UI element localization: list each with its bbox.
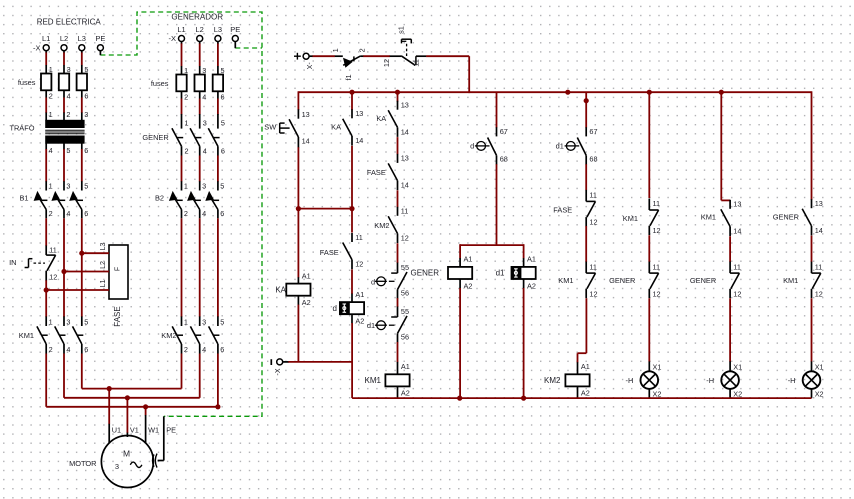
wire f1 to pushbutton s1 — [363, 55, 390, 57]
wire s1 to control bus — [426, 55, 469, 57]
svg-text:4: 4 — [202, 345, 206, 354]
node L3/FASE junction — [79, 251, 84, 256]
fuse F gen pins 3/4 — [195, 66, 207, 102]
svg-text:f1: f1 — [344, 74, 353, 80]
svg-text:3: 3 — [203, 119, 207, 128]
svg-text:U1: U1 — [112, 425, 121, 434]
breaker f1 pins 1/2 — [331, 48, 367, 80]
node bus / d1 67-68 branch — [565, 90, 570, 95]
wire KA coil to - rail — [297, 305, 299, 362]
wire U1 drop to motor — [108, 389, 110, 425]
wire W1 drop to motor — [145, 407, 147, 416]
svg-text:14: 14 — [815, 226, 823, 235]
node rung right — [349, 206, 354, 211]
svg-text:M: M — [123, 449, 130, 459]
wire L3 tap to FASE — [82, 252, 109, 254]
svg-text:3: 3 — [84, 110, 88, 119]
svg-text:GENER: GENER — [609, 276, 635, 285]
breaker B2 pole pins 1/2 — [169, 181, 188, 218]
svg-text:12: 12 — [355, 260, 363, 269]
svg-text:-H: -H — [625, 376, 633, 385]
node bus / lamp branch 1 — [647, 90, 652, 95]
contactor coil KM2 A1/A2 — [577, 362, 579, 374]
node d1 coil / bottom rail — [521, 396, 526, 401]
svg-text:3: 3 — [202, 181, 206, 190]
svg-text:-X: -X — [33, 43, 41, 52]
node SW/KA rung left — [296, 206, 301, 211]
node bus branch 3 — [395, 90, 400, 95]
contactor KM1 pole 5/6 — [73, 316, 89, 354]
svg-text:d1: d1 — [496, 269, 505, 278]
svg-text:fuses: fuses — [18, 78, 36, 87]
svg-text:KM1: KM1 — [701, 213, 716, 222]
svg-text:6: 6 — [221, 92, 225, 101]
svg-text:L3: L3 — [214, 25, 222, 34]
svg-text:L1: L1 — [177, 25, 185, 34]
svg-text:3: 3 — [66, 317, 70, 326]
svg-text:s1: s1 — [396, 26, 405, 34]
svg-text:2: 2 — [49, 345, 53, 354]
svg-text:1: 1 — [184, 181, 188, 190]
wire FASE to KM1 NC — [585, 226, 587, 262]
relay coil GENER A1/A2 — [411, 255, 473, 291]
PE stub wire (mains) — [99, 51, 101, 56]
wire bus to branch KA-FASE-KM2 — [397, 91, 399, 102]
motor M1 3-phase — [69, 436, 153, 488]
wire d to d1 timed contact — [397, 298, 399, 307]
svg-text:KM1: KM1 — [365, 376, 382, 385]
wire KM1 NC to KM2 coil jog — [585, 298, 587, 353]
wire rung to GENER coil — [459, 244, 461, 258]
node V1 bus junction — [125, 395, 130, 400]
svg-text:12: 12 — [589, 289, 597, 298]
svg-text:1: 1 — [49, 181, 53, 190]
svg-text:12: 12 — [382, 59, 391, 67]
contactor KM1 pole 1/2 — [37, 316, 53, 354]
wire motor bus V1 (KM1-4 / KM2-4) — [64, 397, 200, 399]
svg-text:11: 11 — [733, 262, 741, 271]
wire fuses to TRAFO — [45, 98, 47, 114]
svg-text:12: 12 — [653, 226, 661, 235]
svg-text:V1: V1 — [130, 425, 139, 434]
svg-text:14: 14 — [401, 181, 409, 190]
node GENER coil / bottom rail — [457, 396, 462, 401]
wire KM1 NC to lamp H3 — [811, 298, 813, 362]
svg-text:SW: SW — [264, 122, 276, 131]
svg-text:13: 13 — [302, 110, 310, 119]
svg-text:A1: A1 — [302, 271, 311, 280]
svg-text:KM2: KM2 — [374, 221, 389, 230]
terminals -X L1 L2 L3 PE (mains) — [43, 45, 49, 51]
wire bus right end down to GENER 13/14 — [811, 91, 813, 200]
svg-text:1: 1 — [184, 66, 188, 75]
breaker B2 pole pins 3/4 — [187, 181, 206, 218]
wire d 67/68 to coil pair split — [496, 164, 498, 245]
motor PE brush arcs — [153, 454, 158, 468]
generator enclosure PE stub — [235, 47, 262, 49]
svg-text:A1: A1 — [464, 255, 473, 264]
wire PE drop to motor — [163, 416, 165, 460]
svg-text:3: 3 — [115, 462, 119, 471]
svg-text:-X: -X — [169, 34, 177, 43]
svg-text:fuses: fuses — [151, 79, 169, 88]
svg-text:14: 14 — [302, 136, 310, 145]
wire bus to timed contact d 67/68 — [496, 92, 498, 127]
node bus branch 2 — [349, 90, 354, 95]
svg-text:13: 13 — [733, 200, 741, 209]
svg-text:L1: L1 — [42, 34, 50, 43]
svg-text:2: 2 — [66, 110, 70, 119]
svg-text:6: 6 — [220, 345, 224, 354]
wire GENER NC to lamp H2 — [729, 298, 731, 362]
node W1 bus junction — [143, 404, 148, 409]
svg-text:11: 11 — [355, 233, 363, 242]
svg-text:4: 4 — [203, 146, 207, 155]
wire d1 to KM1 coil — [397, 342, 399, 362]
svg-text:1: 1 — [185, 119, 189, 128]
wire KM1 13/14 to GENER NC — [729, 236, 731, 262]
svg-text:A2: A2 — [302, 298, 311, 307]
fuse F mains pins 3/4 — [59, 65, 71, 101]
timed contact d1 pins 67/68 — [556, 127, 598, 164]
svg-text:12: 12 — [815, 289, 823, 298]
svg-text:56: 56 — [401, 288, 409, 297]
svg-text:L2: L2 — [100, 261, 107, 269]
wire generator terminals to fuses — [181, 42, 183, 45]
IN actuator flag and dashed link — [29, 258, 33, 260]
node KM2-6 bus corner — [215, 404, 220, 409]
svg-text:3: 3 — [202, 66, 206, 75]
wire rung to d1 coil — [523, 244, 525, 258]
svg-text:A2: A2 — [355, 317, 364, 326]
svg-text:5: 5 — [221, 119, 225, 128]
svg-text:67: 67 — [589, 127, 597, 136]
svg-text:5: 5 — [84, 181, 88, 190]
svg-text:1: 1 — [49, 110, 53, 119]
svg-text:6: 6 — [84, 91, 88, 100]
svg-text:RED ELECTRICA: RED ELECTRICA — [37, 18, 102, 27]
svg-text:12: 12 — [401, 233, 409, 242]
wire generator fuses to GENER switch — [181, 99, 183, 115]
svg-text:5: 5 — [220, 181, 224, 190]
svg-text:A2: A2 — [464, 281, 473, 290]
node U1 bus junction — [107, 386, 112, 391]
svg-text:4: 4 — [66, 345, 70, 354]
svg-text:d: d — [333, 304, 337, 313]
svg-text:4: 4 — [202, 209, 206, 218]
wire d1 to FASE NC — [585, 164, 587, 190]
svg-text:A1: A1 — [355, 290, 364, 299]
breaker B1 pole pins 3/4 — [51, 181, 70, 218]
contactor KM2 pole 1/2 — [172, 316, 188, 354]
svg-text:6: 6 — [221, 146, 225, 155]
svg-text:12: 12 — [49, 272, 57, 281]
svg-text:13: 13 — [815, 199, 823, 208]
svg-text:d: d — [470, 142, 474, 151]
svg-text:KA: KA — [376, 114, 386, 123]
svg-text:11: 11 — [653, 262, 661, 271]
svg-text:5: 5 — [66, 146, 70, 155]
fuse F gen pins 5/6 — [213, 66, 225, 102]
control + supply terminal -X — [294, 53, 312, 70]
fuse F mains pins 5/6 — [77, 65, 89, 101]
svg-text:6: 6 — [84, 146, 88, 155]
svg-text:2: 2 — [185, 146, 189, 155]
svg-text:A2: A2 — [401, 389, 410, 398]
svg-text:IN: IN — [9, 258, 16, 267]
svg-text:d1: d1 — [556, 142, 564, 151]
svg-text:KM2: KM2 — [161, 331, 176, 340]
timed contact d pins 67/68 — [470, 127, 508, 164]
wire bus to KA contact — [351, 91, 353, 110]
svg-text:14: 14 — [733, 226, 741, 235]
node bus / lamp branch 2 — [719, 90, 724, 95]
auxiliary contact IN pins 11/12 — [9, 246, 57, 282]
svg-text:L2: L2 — [60, 34, 68, 43]
svg-text:A2: A2 — [527, 281, 536, 290]
transformer TRAFO — [9, 110, 88, 155]
svg-text:68: 68 — [589, 154, 597, 163]
wire control bottom rail — [352, 397, 811, 399]
svg-text:14: 14 — [401, 127, 409, 136]
wire KM1 outputs to motor buses — [45, 354, 47, 407]
svg-text:A1: A1 — [401, 362, 410, 371]
svg-text:GENERADOR: GENERADOR — [171, 13, 223, 22]
svg-text:5: 5 — [84, 317, 88, 326]
wire KM1 to GENER NC — [648, 235, 650, 262]
svg-text:-H: -H — [788, 376, 796, 385]
svg-text:-H: -H — [706, 376, 714, 385]
svg-text:3: 3 — [67, 65, 71, 74]
wire KA to FASE (branch 3) — [397, 137, 399, 154]
svg-text:2: 2 — [184, 345, 188, 354]
fuse F gen pins 1/2 — [176, 66, 188, 102]
svg-text:X1: X1 — [815, 362, 824, 371]
wire bus to KM1 13/14 — [720, 92, 722, 200]
control - supply terminal -X — [271, 359, 282, 376]
svg-text:55: 55 — [401, 307, 409, 316]
svg-text:KM2: KM2 — [544, 376, 561, 385]
wire IN to KM1 — [45, 280, 47, 317]
svg-text:1: 1 — [184, 317, 188, 326]
svg-text:11: 11 — [401, 207, 409, 216]
timed contact d pins 55/56 — [371, 263, 409, 299]
switch SW pins 13/14 — [264, 109, 309, 147]
node L2/FASE junction — [61, 269, 66, 274]
wire coil pair rung — [460, 244, 523, 246]
svg-text:X1: X1 — [653, 362, 662, 371]
wire TRAFO to B1 — [45, 143, 47, 149]
svg-text:F: F — [114, 267, 121, 271]
svg-text:KA: KA — [275, 285, 286, 294]
svg-text:13: 13 — [401, 101, 409, 110]
wire GENER NC to lamp H1 — [648, 298, 650, 362]
svg-text:L3: L3 — [78, 34, 86, 43]
svg-text:GENER: GENER — [411, 269, 440, 278]
svg-text:MOTOR: MOTOR — [69, 459, 96, 468]
svg-text:3: 3 — [66, 181, 70, 190]
timed contact d1 pins 55/56 — [367, 307, 409, 343]
svg-text:2: 2 — [184, 92, 188, 101]
svg-text:KM1: KM1 — [623, 214, 638, 223]
svg-text:6: 6 — [84, 345, 88, 354]
wire d1 coil to bottom rail — [523, 288, 525, 398]
contactor KM1 pole 3/4 — [55, 316, 71, 354]
svg-text:PE: PE — [230, 25, 240, 34]
svg-text:11: 11 — [589, 262, 597, 271]
svg-text:L1: L1 — [100, 280, 107, 288]
wire GENER coil to bottom rail — [459, 288, 461, 398]
terminals -X L1 L2 L3 PE (generator) — [179, 36, 185, 42]
wire KA to FASE contact — [351, 146, 353, 233]
timer coil d1 A1/A2 — [496, 255, 536, 291]
svg-text:4: 4 — [66, 209, 70, 218]
svg-text:FASE: FASE — [320, 248, 339, 257]
svg-text:1: 1 — [49, 317, 53, 326]
switch GENER pole 3/4 — [190, 114, 207, 156]
svg-text:5: 5 — [221, 66, 225, 75]
svg-text:W1: W1 — [148, 425, 159, 434]
phase monitor relay FASE box — [100, 243, 128, 327]
relay coil KA A1/A2 — [297, 277, 299, 283]
svg-text:KM1: KM1 — [19, 331, 34, 340]
PE stub wire (generator) — [234, 42, 236, 49]
svg-text:GENER: GENER — [773, 213, 799, 222]
svg-text:GENER: GENER — [142, 133, 168, 142]
svg-text:4: 4 — [49, 146, 53, 155]
svg-text:11: 11 — [815, 262, 823, 271]
breaker B1 pole pins 5/6 — [69, 181, 88, 218]
svg-text:d1: d1 — [367, 321, 375, 330]
breaker B1 pole pins 1/2 — [34, 181, 53, 218]
wire GENER 13/14 to KM1 NC — [811, 236, 813, 262]
SW actuator lever — [280, 122, 285, 124]
wire V1 drop to motor — [126, 398, 128, 433]
wire KM2 contact to timed contact d — [397, 243, 399, 263]
wire d coil to bottom rail — [351, 323, 353, 398]
pushbutton s1 NC pins 11/12 — [382, 26, 427, 67]
svg-text:1: 1 — [49, 65, 53, 74]
indicator lamp -H X1/X2 (running) — [706, 361, 742, 398]
wire motor bus U1 (KM1-6 / KM2-2) — [82, 388, 182, 390]
svg-text:11: 11 — [411, 59, 420, 67]
wire control bus L+ — [298, 91, 811, 93]
fuse F mains pins 1/2 — [41, 65, 53, 101]
wire bus to KM1 NC (lamp branch 1) — [648, 92, 650, 198]
svg-text:5: 5 — [84, 65, 88, 74]
wire + terminal to breaker f1 — [309, 55, 313, 57]
svg-text:4: 4 — [67, 91, 71, 100]
node L1/FASE junction — [44, 287, 49, 292]
svg-text:13: 13 — [401, 154, 409, 163]
svg-text:X1: X1 — [733, 362, 742, 371]
switch GENER pole 5/6 — [208, 114, 225, 156]
wire B2 to KM2 — [181, 218, 183, 316]
svg-text:5: 5 — [220, 317, 224, 326]
svg-text:11: 11 — [653, 199, 661, 208]
contactor coil KM1 A1/A2 — [397, 362, 399, 375]
contactor KM2 pole 5/6 — [209, 316, 225, 354]
switch GENER pole 1/2 — [172, 114, 189, 156]
wire L1 L2 L3 mains terminals to fuses — [45, 51, 47, 54]
wire motor bus W1 (KM1-2 / KM2-6) — [46, 406, 218, 408]
svg-text:L3: L3 — [100, 243, 107, 251]
svg-text:B2: B2 — [155, 193, 164, 202]
svg-text:-X: -X — [305, 62, 312, 69]
svg-text:12: 12 — [589, 218, 597, 227]
svg-text:68: 68 — [500, 154, 508, 163]
svg-text:67: 67 — [500, 127, 508, 136]
svg-text:12: 12 — [733, 289, 741, 298]
svg-text:13: 13 — [355, 109, 363, 118]
wire rung to KA contact branch — [298, 208, 352, 210]
svg-text:A1: A1 — [527, 255, 536, 264]
svg-text:d: d — [371, 277, 375, 286]
svg-text:KM1: KM1 — [783, 276, 798, 285]
svg-text:-X: -X — [275, 368, 282, 375]
svg-text:14: 14 — [355, 136, 363, 145]
svg-text:GENER: GENER — [690, 276, 716, 285]
svg-text:TRAFO: TRAFO — [9, 124, 34, 133]
svg-text:55: 55 — [401, 263, 409, 272]
node branch d1 feed — [584, 98, 589, 103]
timer coil d A1/A2 — [351, 294, 353, 303]
svg-text:11: 11 — [589, 191, 597, 200]
contactor KM2 pole 3/4 — [190, 316, 206, 354]
svg-text:2: 2 — [49, 91, 53, 100]
svg-text:6: 6 — [84, 209, 88, 218]
indicator lamp -H X1/X2 (mains) — [625, 361, 661, 398]
wire FASE to KM2 contact — [397, 190, 399, 207]
wire bus to timed contact d1 67/68 — [585, 92, 587, 127]
wire KM2 outputs to motor buses — [181, 354, 183, 389]
wire B1 to IN / FASE junctions — [45, 218, 47, 246]
svg-text:2: 2 — [184, 209, 188, 218]
wire SW to KA coil — [297, 147, 299, 277]
svg-text:11: 11 — [49, 246, 57, 255]
svg-text:FASE: FASE — [553, 205, 572, 214]
wire L1 tap to FASE — [46, 289, 109, 291]
svg-text:PE: PE — [166, 425, 176, 434]
svg-text:KA: KA — [331, 123, 341, 132]
wire FASE to d coil — [351, 269, 353, 294]
svg-text:L2: L2 — [196, 25, 204, 34]
wire GENER to B2 — [181, 156, 183, 182]
indicator lamp -H X1/X2 (generator) — [788, 361, 824, 398]
svg-text:4: 4 — [202, 92, 206, 101]
wire - terminal rail — [283, 361, 289, 363]
svg-text:6: 6 — [220, 209, 224, 218]
svg-text:2: 2 — [49, 209, 53, 218]
svg-text:B1: B1 — [19, 193, 28, 202]
wire bus to SW — [297, 91, 299, 110]
svg-text:A2: A2 — [581, 389, 590, 398]
svg-text:A1: A1 — [581, 362, 590, 371]
breaker B2 pole pins 5/6 — [205, 181, 224, 218]
svg-text:3: 3 — [202, 317, 206, 326]
svg-text:1: 1 — [331, 48, 340, 52]
s1 actuator button and dashed link — [402, 38, 412, 40]
generator enclosure dashed boundary — [100, 12, 262, 416]
svg-text:KM1: KM1 — [558, 276, 573, 285]
svg-text:12: 12 — [653, 289, 661, 298]
svg-text:FASE: FASE — [367, 168, 386, 177]
wire L2 tap to FASE — [64, 271, 109, 273]
svg-text:PE: PE — [95, 34, 105, 43]
svg-text:X2: X2 — [815, 390, 824, 399]
svg-text:FASE: FASE — [113, 306, 122, 326]
svg-text:2: 2 — [358, 48, 367, 52]
